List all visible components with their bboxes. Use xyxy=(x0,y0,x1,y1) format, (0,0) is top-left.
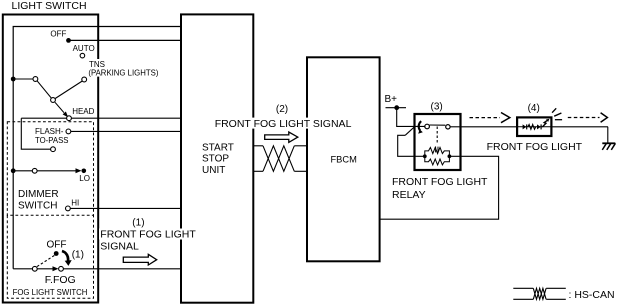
wire dimmer row xyxy=(13,170,79,172)
wire FLASH signal xyxy=(71,130,181,132)
contact pivot xyxy=(33,77,38,82)
node B+ xyxy=(394,105,399,110)
contact dimmer pivot xyxy=(32,168,37,173)
svg-text:HI: HI xyxy=(71,199,79,208)
dashed signal arrow lamp-out xyxy=(568,113,608,123)
switch blade pivot-to-middle xyxy=(37,81,51,99)
signal arrow 2 xyxy=(265,132,298,142)
wire B+ stub xyxy=(386,107,407,109)
svg-text:LIGHT SWITCH: LIGHT SWITCH xyxy=(12,0,87,12)
contact LO xyxy=(82,169,87,174)
wire coil feed branch xyxy=(398,127,415,156)
svg-text:FBCM: FBCM xyxy=(331,155,357,165)
svg-text:HEAD: HEAD xyxy=(72,107,94,116)
wire to-pass link xyxy=(21,118,50,149)
svg-text:(3): (3) xyxy=(431,102,443,113)
svg-text:(4): (4) xyxy=(528,103,540,114)
contact FLASH xyxy=(66,129,71,134)
svg-text:(1): (1) xyxy=(132,218,144,229)
label DIMMER SWITCH xyxy=(18,189,59,212)
wire HI signal xyxy=(70,207,181,209)
contact AUTO xyxy=(80,53,85,58)
svg-text:START: START xyxy=(202,142,234,153)
svg-text:OFF: OFF xyxy=(47,240,67,251)
wire fog pivot stub xyxy=(13,268,32,270)
svg-text:FLASH-: FLASH- xyxy=(35,127,64,136)
svg-text:SIGNAL: SIGNAL xyxy=(100,241,139,253)
wire lamp to ground xyxy=(607,127,609,143)
switch blade fog xyxy=(37,268,53,270)
contact TNS xyxy=(82,77,87,82)
arrowhead fog blade xyxy=(53,266,59,271)
svg-text:TO-PASS: TO-PASS xyxy=(35,136,69,145)
contact F.FOG xyxy=(59,266,64,271)
node coil right xyxy=(448,154,452,158)
svg-text:(1): (1) xyxy=(72,250,84,261)
node pivot junction xyxy=(11,77,16,82)
wire F.FOG signal xyxy=(63,268,181,270)
svg-text:DIMMER: DIMMER xyxy=(18,189,59,200)
arrowhead LO xyxy=(76,168,82,173)
wire coil node left xyxy=(415,155,425,157)
relay contact left terminal xyxy=(425,124,430,129)
contact TO-PASS xyxy=(51,147,56,152)
fog lamp bulb symbol xyxy=(518,119,551,130)
ground chassis xyxy=(602,143,615,150)
switch blade arrow to HEAD xyxy=(55,102,68,117)
wire relay contact out xyxy=(450,126,460,128)
svg-text:FRONT FOG LIGHT SIGNAL: FRONT FOG LIGHT SIGNAL xyxy=(215,118,352,130)
svg-text:FRONT FOG LIGHT: FRONT FOG LIGHT xyxy=(487,141,583,153)
legend twisted pair HS-CAN xyxy=(513,288,566,299)
relay coil bottom branch resistor xyxy=(425,156,450,165)
svg-text:RELAY: RELAY xyxy=(392,189,426,201)
svg-text:UNIT: UNIT xyxy=(202,165,225,176)
relay contact right terminal xyxy=(446,125,450,129)
switch blade middle-to-TNS xyxy=(55,81,82,99)
dashed signal arrow relay-to-lamp xyxy=(470,113,510,123)
relay mechanical link dashed xyxy=(436,127,438,145)
svg-text:F.FOG: F.FOG xyxy=(45,274,76,286)
svg-text:B+: B+ xyxy=(385,94,398,105)
label (2) front fog light signal xyxy=(214,104,353,130)
contact middle xyxy=(51,98,56,103)
contact OFF xyxy=(66,38,71,43)
node dimmer junction xyxy=(11,168,16,173)
switch blade fog dashed off position xyxy=(37,256,55,267)
svg-text:SWITCH: SWITCH xyxy=(18,201,57,212)
label (1) front fog light signal xyxy=(99,218,199,253)
svg-text:LO: LO xyxy=(79,174,90,183)
relay box xyxy=(415,114,461,170)
wire OFF signal xyxy=(69,39,182,41)
signal arrow 1 xyxy=(123,254,156,265)
contact HEAD xyxy=(67,116,72,121)
svg-text:OFF: OFF xyxy=(50,30,66,39)
svg-text:STOP: STOP xyxy=(202,154,229,165)
dashed box fog light switch xyxy=(7,215,93,298)
svg-text:(PARKING LIGHTS): (PARKING LIGHTS) xyxy=(88,68,158,77)
wire coil return to FBCM xyxy=(380,156,499,219)
svg-text:: HS-CAN: : HS-CAN xyxy=(569,289,615,301)
contact fog pivot xyxy=(32,266,37,271)
svg-text:FOG LIGHT SWITCH: FOG LIGHT SWITCH xyxy=(13,288,88,297)
dashed box passing dimmer switch xyxy=(7,122,93,216)
start stop unit box xyxy=(181,14,253,302)
FBCM box xyxy=(307,57,380,261)
wire B+ to relay contact xyxy=(397,108,425,127)
twisted pair HS-CAN bus xyxy=(253,146,307,172)
wire pivot stub xyxy=(13,78,33,80)
light rays xyxy=(552,108,562,119)
relay contact rotation arc xyxy=(418,121,423,134)
label START STOP UNIT xyxy=(202,142,234,176)
node coil left xyxy=(423,154,427,158)
wire HEAD signal xyxy=(21,117,181,119)
wire bus feed xyxy=(13,27,181,269)
relay coil top branch xyxy=(425,147,450,157)
wire relay to fog lamp xyxy=(461,126,609,128)
label FLASH-TO-PASS xyxy=(35,127,69,145)
svg-text:FRONT FOG LIGHT: FRONT FOG LIGHT xyxy=(392,176,488,188)
svg-text:AUTO: AUTO xyxy=(73,44,95,53)
label TNS xyxy=(87,59,106,69)
rotation arrow fog switch xyxy=(62,251,72,266)
fog lamp box xyxy=(517,117,551,136)
svg-text:FRONT FOG LIGHT: FRONT FOG LIGHT xyxy=(100,229,196,241)
relay switch blade xyxy=(429,124,445,126)
wire coil node right xyxy=(449,155,460,157)
svg-text:(2): (2) xyxy=(276,104,288,115)
light switch outer box xyxy=(3,15,98,303)
contact HI xyxy=(66,206,71,211)
contact OFF fog xyxy=(54,251,59,256)
label FRONT FOG LIGHT RELAY xyxy=(392,176,488,201)
label PARKING LIGHTS xyxy=(87,68,160,78)
